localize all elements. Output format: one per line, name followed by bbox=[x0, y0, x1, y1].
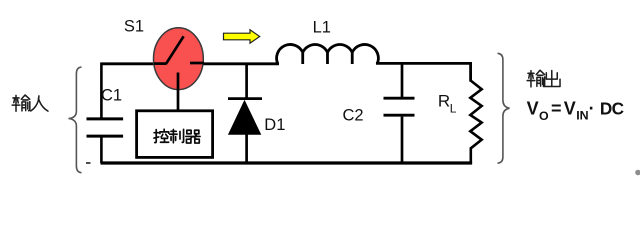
label 控制器 (controller) bbox=[154, 129, 200, 143]
capacitor C1 (input cap) bbox=[87, 63, 124, 163]
wire: switch node, S1 to inductor L1 (D1 tap) bbox=[199, 62, 279, 65]
capacitor C2 (output cap) bbox=[384, 63, 415, 163]
wire: top rail, inductor L1 to load (C2 tap) bbox=[376, 62, 472, 65]
svg-text:L: L bbox=[450, 102, 457, 116]
current flow arrow (yellow) bbox=[224, 30, 260, 43]
formula VO = VIN · DC bbox=[527, 98, 624, 123]
svg-text:D1: D1 bbox=[264, 116, 285, 134]
svg-text:L1: L1 bbox=[313, 18, 331, 36]
svg-text:V: V bbox=[564, 98, 576, 118]
wire: right vertical drop into load resistor RL bbox=[469, 62, 472, 82]
switch S1 (red ellipse with open lever) bbox=[154, 28, 205, 112]
svg-text:C2: C2 bbox=[343, 107, 364, 125]
svg-text:DC: DC bbox=[600, 98, 624, 118]
label 输入 (input) bbox=[12, 95, 48, 111]
svg-text:O: O bbox=[539, 109, 549, 123]
svg-text:=: = bbox=[551, 98, 562, 118]
inductor L1 bbox=[277, 44, 379, 64]
wire: bottom return rail bbox=[101, 161, 473, 164]
svg-text:S1: S1 bbox=[124, 18, 144, 36]
right brace (output annotation) bbox=[498, 53, 510, 163]
svg-text:·: · bbox=[589, 98, 595, 118]
wire: top rail, input node to switch S1 bbox=[101, 62, 157, 65]
svg-text:V: V bbox=[527, 98, 539, 118]
label 输出 (output) bbox=[527, 70, 560, 87]
svg-text:R: R bbox=[438, 92, 450, 111]
artifact dot at bottom-right corner bbox=[635, 170, 640, 176]
resistor RL (load) bbox=[470, 81, 481, 164]
artifact dash left of bottom rail bbox=[86, 162, 91, 164]
controller box U1 bbox=[137, 111, 213, 158]
left brace (input annotation) bbox=[69, 67, 82, 173]
diode D1 (freewheeling) bbox=[228, 63, 262, 163]
svg-text:C1: C1 bbox=[101, 87, 122, 105]
svg-text:IN: IN bbox=[576, 109, 588, 123]
